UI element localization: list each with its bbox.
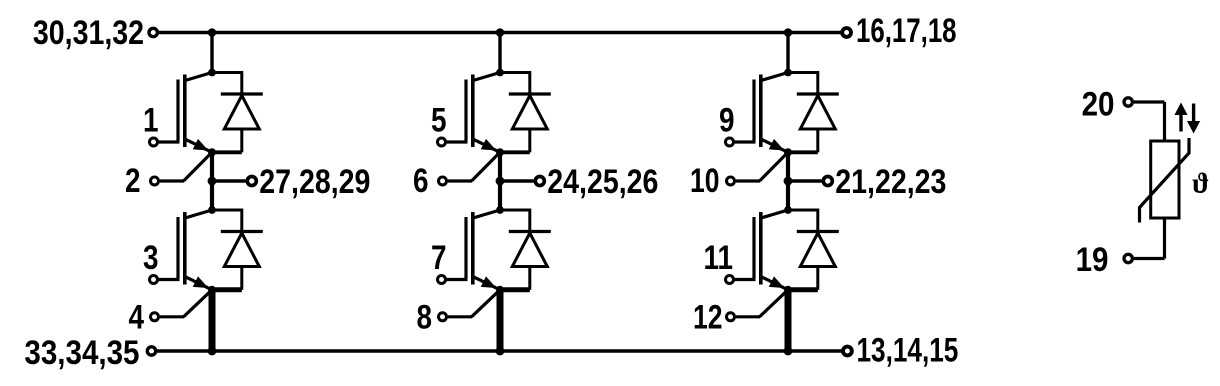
svg-text:33,34,35: 33,34,35 — [24, 333, 139, 371]
svg-text:8: 8 — [416, 298, 432, 336]
svg-text:19: 19 — [1076, 240, 1109, 278]
svg-text:21,22,23: 21,22,23 — [835, 163, 946, 201]
svg-text:10: 10 — [690, 162, 720, 200]
svg-text:16,17,18: 16,17,18 — [856, 13, 957, 50]
svg-text:30,31,32: 30,31,32 — [33, 14, 144, 52]
svg-text:20: 20 — [1082, 84, 1115, 122]
svg-text:11: 11 — [704, 238, 733, 276]
svg-text:12: 12 — [693, 299, 723, 337]
svg-text:9: 9 — [719, 101, 735, 139]
svg-text:5: 5 — [431, 101, 447, 139]
svg-text:2: 2 — [125, 161, 141, 199]
svg-text:24,25,26: 24,25,26 — [547, 163, 658, 201]
svg-text:27,28,29: 27,28,29 — [259, 163, 370, 201]
svg-text:13,14,15: 13,14,15 — [857, 333, 959, 370]
svg-text:7: 7 — [431, 238, 447, 276]
svg-text:3: 3 — [143, 238, 159, 276]
svg-text:4: 4 — [128, 298, 144, 336]
svg-text:1: 1 — [143, 101, 159, 139]
svg-text:ϑ: ϑ — [1192, 168, 1209, 200]
svg-text:6: 6 — [413, 161, 429, 199]
